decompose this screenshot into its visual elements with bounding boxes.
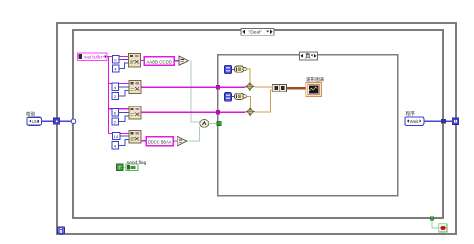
And function: [200, 120, 209, 128]
wire: string stub row1: [109, 56, 129, 58]
wire: case tunnel to loop tunnel: [446, 120, 453, 122]
numeric constant row4 b: [112, 142, 118, 149]
wire: string stub row3: [109, 108, 129, 110]
selector tunnel on inner case: [217, 121, 221, 125]
wire: join2 to build array: [255, 90, 272, 112]
wire: boolean from equal row4 to And: [187, 126, 199, 141]
wire: row1 length: [119, 63, 128, 68]
wire: tunnel to case selector: [60, 120, 71, 122]
string constant DDCC BBAA: [146, 137, 173, 146]
loop condition stop terminal: [439, 224, 447, 232]
wire: And output to case selector: [209, 122, 217, 124]
numeric constant row1 a: [113, 56, 119, 63]
wire: scan1 to join1: [246, 69, 250, 83]
hex scan function 1: [234, 66, 246, 72]
case selector label "Deal": [241, 28, 274, 35]
join numbers 2: [245, 108, 255, 116]
join numbers 1: [245, 82, 255, 90]
wire: row2 offset: [119, 86, 130, 88]
wire: row3 length: [119, 116, 130, 122]
wire: constant to equal row4: [173, 140, 177, 142]
equal? function row4: [177, 136, 187, 145]
svg-text:真: 真: [305, 52, 311, 60]
label send flag: [127, 160, 147, 166]
hex scan function 2: [234, 93, 246, 99]
case selector label (True): [300, 52, 318, 60]
numeric constant row2 b: [112, 92, 118, 99]
local variable "read buffer": [77, 53, 107, 60]
wire: boolean to stop terminal: [432, 220, 439, 228]
wire: control to while-loop tunnel: [41, 120, 53, 122]
label of right enum: [406, 110, 416, 117]
svg-text:程序: 程序: [406, 110, 416, 117]
queue refnum constant 1: [225, 65, 232, 74]
boolean constant T: [117, 164, 123, 170]
wire: row4 length: [119, 140, 130, 146]
tunnel row3 string on inner case: [216, 110, 220, 114]
svg-text:U16: U16: [32, 119, 40, 124]
wire: boolean from equal row1 to And: [189, 61, 201, 122]
string subset function row1: [128, 53, 140, 66]
svg-text:T: T: [118, 165, 121, 170]
wire: string row3 to inner case: [141, 111, 245, 113]
wire: row1 offset: [119, 58, 128, 60]
queue refnum constant 2: [225, 93, 232, 102]
svg-text:AABB CCDD: AABB CCDD: [146, 59, 172, 64]
wire: row2 length: [119, 90, 130, 96]
wire: scan2 to join2: [246, 96, 250, 107]
string subset function row4: [129, 131, 141, 143]
tunnel on Deal case right border: [441, 119, 446, 124]
svg-text:校验: 校验: [26, 111, 36, 118]
wire: join1 to build array: [255, 86, 273, 88]
wire: row4 substring to constant: [141, 140, 146, 142]
label waveform chart: [306, 76, 325, 83]
wire: row3 offset: [119, 111, 130, 113]
tunnel on Deal case bottom border: [430, 217, 433, 220]
wire: enum to case tunnel: [424, 120, 441, 122]
numeric constant row2 a: [112, 83, 118, 90]
wire: refnum1 to scan1: [231, 68, 234, 70]
equal? function row1: [179, 56, 189, 65]
svg-text:"Deal": "Deal": [249, 30, 263, 36]
wire: string stub row4: [109, 133, 129, 135]
wire: array to waveform chart: [286, 87, 305, 89]
wire: constant to equal row1: [174, 60, 179, 62]
while loop frame: [57, 23, 456, 234]
wire: T to send flag local: [123, 166, 126, 168]
wire: refnum2 to scan2: [231, 96, 234, 98]
svg-text:DDCC BBAA: DDCC BBAA: [148, 140, 172, 145]
wire: string row2 to inner case: [141, 86, 245, 88]
string constant AABB CCDD: [144, 57, 174, 65]
case structure "Deal" frame: [73, 30, 443, 218]
numeric constant row1 b: [113, 65, 119, 72]
numeric constant row3 a: [112, 109, 118, 116]
wire: row4 offset: [120, 135, 129, 137]
build array: [272, 85, 286, 92]
tunnel row2 string on inner case: [216, 85, 220, 89]
wire: row1 substring to constant: [141, 59, 145, 61]
tunnel on while loop right border: [452, 118, 459, 125]
numeric constant row3 b: [112, 118, 118, 125]
local variable send flag: [126, 164, 138, 170]
numeric constant row4 a: [113, 132, 120, 139]
loop iteration terminal: [58, 227, 65, 234]
wire: string trunk from read buffer: [107, 57, 109, 134]
svg-text:Wait: Wait: [410, 119, 419, 124]
svg-text:14: 14: [114, 134, 119, 139]
case selector terminal on Deal frame: [71, 119, 76, 124]
string subset function row2: [129, 81, 141, 94]
label of left control: [26, 111, 36, 118]
waveform chart terminal: [306, 83, 322, 97]
left enum control terminal: [27, 117, 42, 125]
wire: string stub row2: [109, 82, 129, 84]
enum constant Wait: [405, 117, 424, 126]
inner case structure (True) frame: [218, 55, 398, 196]
svg-text:read buffer: read buffer: [84, 55, 103, 60]
svg-text:波形图表: 波形图表: [306, 76, 325, 83]
tunnel on while loop left border: [54, 118, 60, 124]
string subset function row3: [129, 106, 141, 119]
